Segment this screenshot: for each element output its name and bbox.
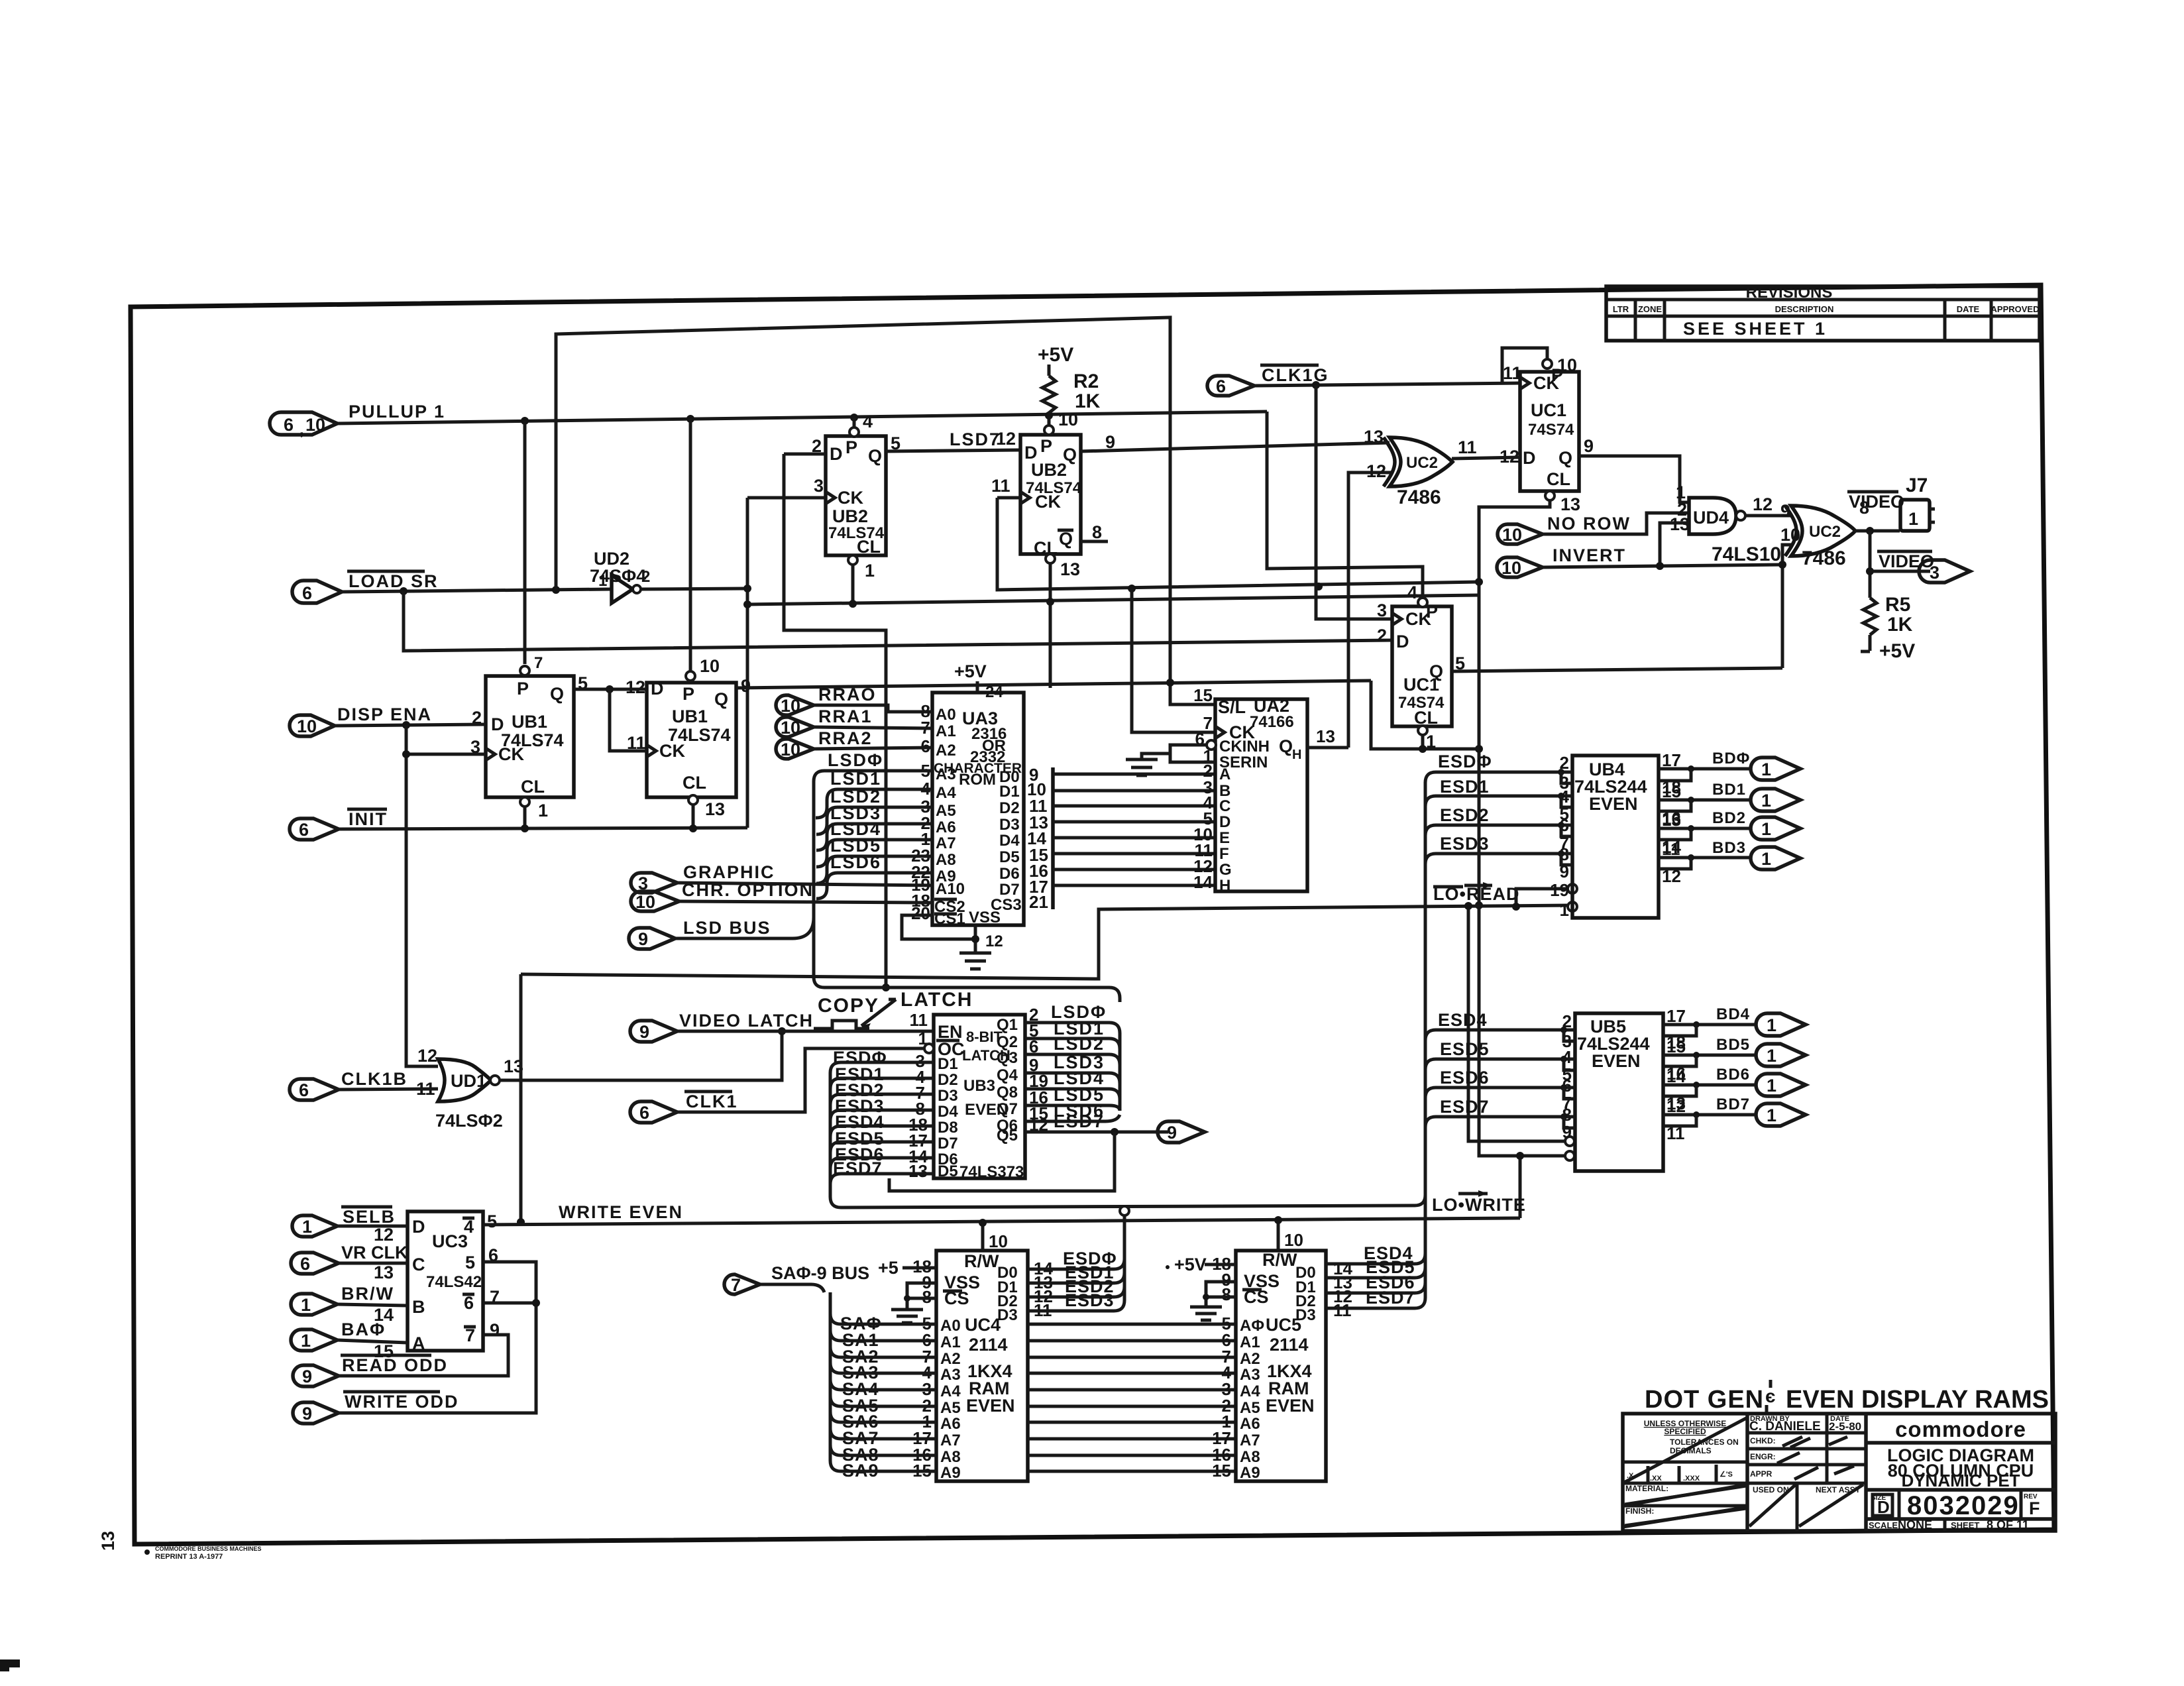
svg-text:15: 15 [1193, 685, 1213, 705]
svg-text:1: 1 [1908, 509, 1918, 529]
scan artifact bottom-left edge [0, 1659, 20, 1667]
svg-text:+5V: +5V [954, 661, 987, 681]
svg-text:Q7: Q7 [997, 1100, 1018, 1118]
wire D0 to UA2 A [1053, 773, 1215, 776]
svg-text:D3: D3 [1295, 1306, 1316, 1324]
svg-text:A7: A7 [1240, 1432, 1260, 1449]
svg-text:CLK1G: CLK1G [1262, 365, 1329, 385]
svg-text:D: D [1523, 448, 1536, 468]
resistor R2 1K [1042, 376, 1056, 416]
node junction Q / CK2 drop [606, 685, 614, 693]
node RRA1 input tag 10 [776, 706, 873, 738]
svg-text:1: 1 [302, 1217, 312, 1237]
wire NO ROW to UD4 input 2 [1543, 513, 1689, 534]
wire drop to UA2 CK [1132, 589, 1215, 732]
buffer UB4 74LS244 EVEN [1572, 756, 1659, 918]
svg-text:A3: A3 [1240, 1366, 1260, 1384]
svg-text:D4: D4 [938, 1103, 958, 1121]
wire UC1-1 CL down-run (to UB5 G) [1479, 500, 1570, 1156]
svg-text:B: B [412, 1297, 425, 1317]
wire ESD5 into D7 [830, 1142, 934, 1152]
svg-text:D: D [1219, 813, 1230, 831]
node GRAPHIC input tag 3 [631, 862, 775, 893]
svg-text:ESD6: ESD6 [1440, 1068, 1490, 1088]
SA address labels [840, 1314, 882, 1481]
svg-text:P: P [846, 437, 857, 457]
svg-text:ESD4: ESD4 [1438, 1010, 1488, 1030]
wire clear bus run (UB2 CL row) [747, 595, 1479, 604]
label LO-READ with arrow [1433, 882, 1519, 904]
wire R/W stub UC5 [1277, 1220, 1280, 1251]
node BD5 output tag 1 [1716, 1036, 1806, 1066]
svg-text:21: 21 [1029, 892, 1048, 912]
svg-text:4: 4 [1407, 583, 1417, 602]
svg-text:13: 13 [705, 799, 725, 819]
svg-text:G: G [1219, 861, 1232, 879]
wire CS1 pin 20 to ground run [902, 915, 975, 939]
svg-text:8: 8 [1222, 1284, 1231, 1304]
svg-text:Q: Q [1558, 448, 1572, 468]
svg-text:7486: 7486 [1397, 486, 1441, 508]
wire VR CLK to C [339, 1262, 408, 1265]
wire D2 to UA2 C [1053, 805, 1215, 808]
svg-text:PULLUP 1: PULLUP 1 [349, 402, 445, 421]
rom UA3 2316/2332 [932, 693, 1024, 928]
node junction CK bus / UA2 drop [1128, 585, 1136, 592]
pin numbers left of UA3 [911, 701, 930, 923]
svg-text:A0: A0 [936, 706, 956, 724]
svg-text:9: 9 [1167, 1123, 1177, 1143]
svg-text:R/W: R/W [964, 1251, 999, 1271]
svg-text:UC1: UC1 [1531, 400, 1566, 420]
svg-text:BD1: BD1 [1712, 781, 1746, 799]
buffer UB5 74LS244 EVEN [1575, 1013, 1663, 1171]
svg-text:D6: D6 [999, 865, 1020, 883]
wire LSD3 row [816, 824, 932, 850]
pin numbers left of UA2 [1193, 685, 1213, 892]
node junction LOAD SR / vertical to 982 run [400, 587, 408, 595]
wire D riser stepping down to LSD transfer run [784, 454, 886, 987]
wire ESD3 branch to UB4 pin8 [1425, 854, 1572, 864]
svg-text:+5: +5 [878, 1258, 899, 1278]
svg-text:13: 13 [98, 1531, 118, 1551]
svg-text:1K: 1K [1075, 390, 1101, 412]
wire ESD4 into D8 [830, 1126, 934, 1137]
svg-text:A7: A7 [940, 1432, 961, 1449]
svg-text:10: 10 [1780, 525, 1800, 545]
svg-text:SPECIFIED: SPECIFIED [1664, 1427, 1706, 1436]
svg-text:REVISIONS: REVISIONS [1746, 284, 1833, 302]
node RRA2 input tag 10 [776, 728, 873, 759]
svg-text:RRA2: RRA2 [818, 728, 873, 748]
svg-text:9: 9 [638, 929, 648, 949]
wire DISP ENA to UB1-1 D [335, 724, 486, 726]
gate UC2 7486 XOR second [1780, 498, 1869, 569]
svg-text:9: 9 [302, 1367, 312, 1386]
wire UB1-1 Q to UB1-2 D [574, 688, 647, 691]
svg-text:5: 5 [465, 1253, 475, 1272]
ESD input labels at UB3 [833, 1048, 887, 1178]
wire P stub UB1-2 [689, 419, 692, 671]
svg-text:TOLERANCES ON: TOLERANCES ON [1670, 1437, 1739, 1447]
ESD labels at UC5 outputs [1364, 1243, 1415, 1308]
svg-text:BDΦ: BDΦ [1712, 750, 1750, 767]
connector J7 [1900, 475, 1935, 531]
wire BD5 out [1663, 1054, 1757, 1057]
svg-text:10: 10 [781, 740, 800, 759]
node LSD BUS input tag 9 [629, 918, 771, 949]
svg-text:D5: D5 [938, 1162, 958, 1180]
ESD labels into UB5 [1438, 1010, 1490, 1117]
svg-text:12: 12 [985, 932, 1003, 950]
wire UB1-2 Q long run to UC1-2 region [736, 681, 1371, 688]
ground below UC4 [891, 1310, 923, 1323]
svg-text:74S74: 74S74 [1398, 694, 1445, 712]
svg-text:9: 9 [302, 1404, 312, 1424]
node RRA0 input tag 10 [776, 685, 877, 716]
wire LSD0 out [1025, 1023, 1120, 1111]
node DISP ENA input tag 10 [290, 704, 432, 736]
svg-text:D5: D5 [999, 848, 1020, 866]
ground symbol below UA3 [959, 953, 991, 969]
svg-text:7: 7 [731, 1275, 741, 1295]
svg-text:10: 10 [1501, 558, 1521, 578]
svg-text:BD7: BD7 [1716, 1096, 1750, 1113]
shift register UA2 74166 [1207, 696, 1307, 895]
wire UC3 out6/out7 tie and WRITE ODD riser [339, 1262, 536, 1413]
wire SA9 row [830, 1461, 936, 1471]
node CLK1 input tag 6 [630, 1092, 738, 1123]
svg-text:D1: D1 [999, 783, 1020, 801]
node VIDEO LATCH input tag 9 [630, 1011, 814, 1042]
wire UC1-1 preset loop [1502, 348, 1547, 383]
svg-text:CK: CK [838, 488, 863, 508]
svg-text:D2: D2 [938, 1071, 958, 1089]
svg-text:CL: CL [857, 537, 881, 557]
svg-text:ESD3: ESD3 [1065, 1290, 1115, 1310]
wire SA5 row [830, 1396, 936, 1406]
svg-text:Q1: Q1 [997, 1016, 1018, 1034]
svg-text:6: 6 [639, 1103, 649, 1123]
wire LSD7 out to tag 9 [1025, 1131, 1168, 1134]
svg-text:A6: A6 [1240, 1415, 1260, 1433]
node LSD7 output tag 9 [1158, 1121, 1205, 1143]
svg-text:S/L: S/L [1218, 697, 1246, 717]
svg-text:5: 5 [487, 1211, 497, 1231]
svg-text:SAΦ-9 BUS: SAΦ-9 BUS [771, 1263, 869, 1283]
svg-text:BD6: BD6 [1716, 1066, 1750, 1084]
copyright fine print bottom-left [144, 1545, 262, 1561]
wire CK feed UB1-1 [406, 753, 486, 756]
svg-text:VR CLK: VR CLK [341, 1243, 408, 1263]
svg-text:12: 12 [417, 1046, 437, 1066]
svg-text:.XX: .XX [1650, 1475, 1662, 1483]
svg-text:11: 11 [1333, 1300, 1352, 1320]
svg-text:12: 12 [996, 429, 1016, 449]
svg-text:74LS42: 74LS42 [426, 1273, 482, 1291]
wire ESD2 branch to UB4 pin6 [1425, 825, 1572, 836]
svg-text:BD2: BD2 [1712, 809, 1746, 827]
svg-text:ENGR:: ENGR: [1750, 1452, 1776, 1461]
wire UB2-1 CL stub [851, 565, 855, 604]
svg-text:1: 1 [1761, 849, 1771, 869]
svg-text:R2: R2 [1073, 370, 1099, 392]
svg-text:CK: CK [659, 741, 685, 761]
svg-text:INVERT: INVERT [1553, 545, 1626, 565]
svg-text:Q: Q [714, 689, 728, 709]
wire ESD0 branch to UB4 pin2 [1425, 772, 1572, 783]
svg-text:DATE: DATE [1957, 304, 1980, 314]
svg-text:2: 2 [641, 568, 650, 586]
svg-text:10: 10 [1557, 355, 1577, 375]
wire P stub UB2-2 [1048, 416, 1051, 425]
ESD trunk vertical continues below return [1424, 782, 1427, 1117]
node junction S/L on Q-run [1166, 679, 1174, 687]
node PULLUP 1 input tag 6,10 [270, 402, 445, 439]
wire LSD7 return under UB3 [889, 1132, 1115, 1191]
power +5V below R5 [1869, 635, 1872, 651]
svg-text:A7: A7 [936, 834, 956, 852]
wire vertical trunk x1128 (CK of UB2-1 down to INIT) [746, 498, 749, 828]
pin numbers UB5 right and BD ties [1666, 1006, 1686, 1143]
svg-text:+5V: +5V [1879, 640, 1915, 662]
svg-text:A4: A4 [936, 784, 956, 802]
svg-text:74LS10: 74LS10 [1712, 543, 1781, 565]
node SELB input tag 1 [292, 1207, 396, 1237]
svg-text:15: 15 [1212, 1461, 1231, 1481]
wire WRITE EVEN long run [483, 1218, 1520, 1225]
svg-text:LO•WRITE: LO•WRITE [1432, 1195, 1526, 1215]
svg-text:WRITE EVEN: WRITE EVEN [559, 1202, 683, 1222]
node BD7 output tag 1 [1716, 1096, 1806, 1126]
svg-text:1: 1 [301, 1295, 311, 1315]
node junction PULLUP/UB1-1 P [521, 417, 529, 425]
wire CK feed UB2-1 [747, 496, 826, 500]
wire BD2 out [1659, 827, 1751, 830]
wire VIDEO LATCH to UB3 EN [677, 1030, 934, 1033]
wire LSD4 out [1025, 1089, 1120, 1099]
svg-text:INIT: INIT [349, 809, 388, 829]
wire ESD1 into D2 [830, 1078, 934, 1089]
svg-text:A10: A10 [936, 880, 965, 898]
node BD6 output tag 1 [1716, 1066, 1806, 1096]
wire CHR OPTION to CS2 [679, 901, 932, 903]
svg-text:H: H [1292, 748, 1301, 762]
annotation COPY/LATCH waveform [814, 989, 973, 1031]
svg-text:10: 10 [989, 1231, 1008, 1251]
svg-text:3: 3 [814, 476, 824, 496]
svg-text:11: 11 [1458, 437, 1477, 457]
svg-text:74LS373: 74LS373 [959, 1163, 1024, 1181]
svg-text:EVEN: EVEN [966, 1396, 1015, 1416]
svg-text:1: 1 [301, 1331, 311, 1351]
svg-text:1: 1 [1767, 1076, 1776, 1096]
svg-text:4: 4 [863, 412, 873, 431]
svg-text:6: 6 [300, 1254, 310, 1274]
middle signature box [1747, 1432, 1866, 1435]
svg-text:A9: A9 [940, 1464, 961, 1482]
wire LO-READ drop to UB5 pin 19 [1468, 906, 1565, 1141]
svg-text:CK: CK [498, 744, 524, 764]
svg-text:6: 6 [1216, 376, 1226, 396]
ground below UA2 CKINH [1126, 759, 1158, 775]
svg-text:,: , [300, 421, 304, 439]
svg-text:A0: A0 [940, 1317, 961, 1335]
wire UB2-1 D input [784, 453, 826, 456]
svg-text:F: F [1219, 845, 1229, 863]
node junction LOAD SR / S-L riser [552, 586, 560, 594]
wire BD4 out [1663, 1023, 1757, 1027]
wire ESD6 branch to UB5 pin6 [1425, 1088, 1575, 1098]
svg-text:H: H [1219, 877, 1230, 895]
pin numbers UB5 left [1562, 1011, 1572, 1142]
svg-text:LATCH: LATCH [901, 989, 973, 1011]
wire UA2 CKINH/SERIN tie to ground [1170, 745, 1215, 762]
svg-text:VIDEO: VIDEO [1879, 551, 1934, 571]
svg-text:A6: A6 [940, 1415, 961, 1433]
right company box [1866, 1441, 2055, 1445]
svg-text:CL: CL [1547, 469, 1570, 489]
wire LSD5 row [816, 856, 932, 883]
svg-text:A8: A8 [1240, 1448, 1260, 1466]
svg-text:C: C [412, 1255, 425, 1274]
wire UD2 output to CK riser [641, 589, 747, 589]
svg-text:P: P [682, 684, 694, 704]
svg-text:.X: .X [1627, 1472, 1634, 1480]
svg-text:SELB: SELB [343, 1207, 396, 1227]
svg-text:A5: A5 [940, 1399, 961, 1417]
svg-text:CK: CK [1035, 492, 1061, 512]
svg-text:9: 9 [1584, 436, 1594, 456]
svg-text:D2: D2 [999, 799, 1020, 817]
node junction PULLUP/UB2-1 P [850, 414, 858, 421]
svg-text:SHEET: SHEET [1951, 1520, 1979, 1530]
wire ESD0 into D1 [830, 1062, 934, 1074]
wire R/W stub UC4 [981, 1223, 985, 1251]
svg-text:LSD BUS: LSD BUS [683, 918, 771, 938]
svg-text:CK: CK [1405, 609, 1431, 629]
svg-text:Q5: Q5 [997, 1127, 1018, 1145]
svg-text:CLK1: CLK1 [686, 1092, 738, 1111]
wire SA trunk [829, 1292, 832, 1461]
node INIT input tag 6 [290, 809, 388, 840]
wire D7 to UA2 H [1053, 884, 1215, 887]
wire UB2-2 CK feed [997, 496, 1020, 500]
wire to VIDEO output tag [1870, 570, 1930, 573]
svg-text:READ ODD: READ ODD [342, 1355, 448, 1375]
svg-text:UB2: UB2 [1031, 460, 1067, 480]
wire VSS pin 12 ground [974, 925, 977, 953]
wire ESD5 branch to UB5 pin4 [1425, 1059, 1575, 1070]
wire P stub UB1-1 [523, 421, 527, 664]
svg-text:A1: A1 [1240, 1333, 1260, 1351]
node junction CK bus / CLK1G drop [1315, 583, 1323, 590]
svg-text:ESD5: ESD5 [1440, 1039, 1490, 1059]
wire UB4 G stubs (pins 19 and 1) [1516, 889, 1568, 907]
svg-text:ZONE: ZONE [1638, 304, 1662, 314]
svg-text:UB1: UB1 [512, 712, 547, 732]
svg-text:A4: A4 [1240, 1382, 1260, 1400]
svg-text:LTR: LTR [1613, 304, 1629, 314]
svg-text:A2: A2 [940, 1350, 961, 1368]
node junction PULLUP/UB1-2 P [686, 415, 694, 423]
svg-text:EVEN: EVEN [1592, 1051, 1641, 1071]
svg-text:ESD7: ESD7 [1366, 1288, 1415, 1308]
wire LSD BUS tag entry [675, 917, 814, 938]
svg-text:12: 12 [1366, 461, 1386, 481]
ram UC4 2114 [936, 1251, 1028, 1482]
svg-text:CLK1B: CLK1B [341, 1069, 408, 1089]
svg-text:CHKD:: CHKD: [1750, 1436, 1776, 1445]
svg-text:1: 1 [538, 801, 548, 820]
wire LSD1 out [1025, 1039, 1120, 1049]
svg-text:1: 1 [1560, 900, 1569, 920]
svg-text:D: D [1396, 632, 1409, 651]
svg-text:10: 10 [781, 696, 800, 716]
wire BR/W to B [337, 1304, 408, 1306]
pin numbers UB4 left [1550, 753, 1569, 920]
wire NOR output to video latch riser [500, 1031, 782, 1080]
pin numbers UC4 [912, 1257, 932, 1481]
node VR CLK input tag 6 [291, 1243, 408, 1274]
svg-text:UB1: UB1 [672, 706, 708, 726]
svg-text:D8: D8 [938, 1119, 958, 1137]
svg-text:NO ROW: NO ROW [1547, 514, 1631, 534]
sheet title DOT GEN & EVEN DISPLAY RAMS [1645, 1380, 2049, 1414]
svg-text:SCALE: SCALE [1869, 1520, 1898, 1530]
label LO-WRITE with arrow [1432, 1190, 1526, 1215]
svg-text:9: 9 [1780, 501, 1790, 521]
tolerance box [1623, 1461, 1747, 1464]
svg-text:DYNAMIC PET: DYNAMIC PET [1901, 1471, 2020, 1490]
wire SA7 row [830, 1428, 936, 1439]
svg-text:13: 13 [1060, 559, 1080, 579]
wire RRA1 to A1 [814, 727, 932, 728]
svg-text:D3: D3 [938, 1087, 958, 1105]
svg-text:USED ON: USED ON [1753, 1485, 1789, 1494]
svg-text:9: 9 [741, 676, 751, 696]
node CLK1B input tag 6 [290, 1069, 408, 1100]
svg-text:12: 12 [626, 677, 645, 697]
svg-text:11: 11 [1503, 363, 1522, 383]
wire LSD3 out [1025, 1073, 1120, 1084]
svg-text:Q3: Q3 [997, 1049, 1018, 1067]
svg-text:14: 14 [374, 1305, 394, 1325]
svg-text:DISP ENA: DISP ENA [337, 704, 432, 724]
svg-text:WRITE ODD: WRITE ODD [345, 1392, 459, 1412]
wire LOAD SR drop to UC1-2 D run [404, 591, 1392, 651]
svg-text:Q: Q [1279, 736, 1293, 756]
svg-text:A3: A3 [936, 765, 956, 783]
wire UD4 out to XOR2 input 9 [1745, 514, 1791, 518]
wire D3 to UA2 D [1053, 820, 1215, 824]
wire ESD6 into D6 [830, 1158, 934, 1168]
svg-text:UC4: UC4 [965, 1315, 1001, 1335]
svg-text:∠'S: ∠'S [1720, 1471, 1733, 1479]
svg-text:A4: A4 [940, 1382, 961, 1400]
wire UB2-2 Q to XOR input 13 [1081, 443, 1390, 451]
gate UC2 7486 XOR first [1364, 427, 1477, 508]
wire D1 to UA2 B [1053, 789, 1215, 793]
node BD4 output tag 1 [1716, 1005, 1806, 1036]
wire ESD4-7 outputs of UC5 curve up to trunk [1326, 1253, 1425, 1264]
svg-text:BD3: BD3 [1712, 839, 1746, 857]
svg-text:A9: A9 [1240, 1464, 1260, 1482]
wire RRA2 to A2 [814, 748, 932, 749]
svg-text:6: 6 [299, 820, 309, 840]
svg-text:P: P [517, 679, 529, 699]
svg-text:13: 13 [908, 1161, 928, 1181]
